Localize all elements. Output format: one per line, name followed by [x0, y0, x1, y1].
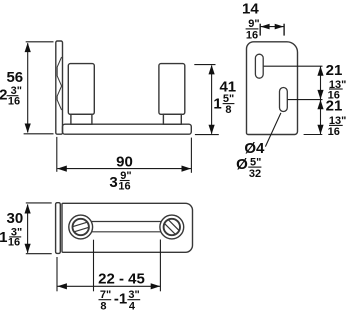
svg-text:32: 32: [249, 168, 261, 180]
svg-text:8: 8: [100, 300, 106, 310]
arrow up 41: [209, 65, 215, 75]
ext line bottom: [195, 134, 219, 136]
svg-text:3: 3: [109, 174, 117, 191]
dimension 22-45 / 7/8"-1 3/4": [57, 240, 160, 292]
ext line bottom: [24, 133, 54, 135]
upper slot: [255, 54, 263, 78]
right roller neck: [163, 114, 181, 124]
svg-text:Ø: Ø: [236, 156, 248, 173]
right screw head: [164, 219, 180, 235]
ext bar right: [283, 24, 285, 36]
svg-text:90: 90: [116, 154, 133, 171]
arrow right 90: [182, 166, 192, 172]
adjustment slot upper edge: [81, 221, 172, 223]
left screw outer rim: [69, 215, 93, 239]
ext line plate bottom: [304, 134, 323, 136]
dimension 21/21 13/16" chain: [264, 66, 323, 134]
dim line 14: [260, 26, 284, 28]
ext line upper slot: [264, 65, 323, 67]
arrow left 90: [57, 166, 67, 172]
arrow right 14: [275, 24, 284, 30]
ext line left: [56, 137, 58, 172]
svg-text:16: 16: [118, 180, 130, 192]
side view plate: [247, 42, 298, 135]
dim line 41: [211, 66, 213, 134]
svg-text:16: 16: [328, 126, 340, 138]
ext line top: [26, 41, 54, 43]
lower slot: [280, 88, 288, 112]
right roller body: [159, 64, 185, 115]
ext bar left: [259, 24, 261, 36]
ext line right: [190, 138, 192, 173]
top view base plate: [62, 203, 193, 252]
dimension 41 / 1 5/8": [194, 65, 219, 135]
arrow left 14: [261, 24, 270, 30]
arrow up 21b: [317, 100, 323, 110]
ext line top: [26, 202, 52, 204]
ext line right screw: [159, 240, 161, 292]
left screw driver slot: [73, 222, 89, 232]
svg-text:30: 30: [7, 210, 24, 227]
right screw driver slot: [164, 220, 179, 235]
svg-text:21: 21: [326, 62, 343, 79]
ext line back plate: [56, 257, 58, 291]
ext line bottom: [26, 253, 52, 255]
svg-text:1: 1: [213, 96, 221, 113]
dimension 90 / 3 9/16": [57, 137, 192, 173]
left roller neck: [71, 114, 92, 124]
dim line 22-45: [57, 285, 160, 287]
svg-text:8: 8: [225, 104, 231, 116]
svg-text:21: 21: [326, 98, 343, 115]
arrow down 21b: [317, 125, 323, 135]
arrow down 56: [25, 124, 31, 134]
svg-text:1: 1: [0, 229, 7, 246]
arrow up 56: [25, 43, 31, 53]
dim line 30: [27, 205, 29, 253]
front view wall plate: [56, 41, 63, 134]
arrow up 21a: [317, 66, 323, 76]
svg-text:-1: -1: [114, 291, 127, 308]
adjustment slot lower edge: [81, 231, 172, 233]
left roller body: [68, 64, 94, 115]
dimension 30 / 1 3/16": [26, 203, 52, 254]
dim line 56: [27, 43, 29, 132]
svg-text:2: 2: [0, 86, 7, 103]
ext line top: [194, 64, 215, 66]
leader line for hole dia: [265, 113, 281, 147]
arrow down 21a: [317, 90, 323, 100]
arrow down 41: [209, 125, 215, 135]
top view back plate strip: [56, 203, 61, 254]
arrow up 30: [25, 204, 31, 214]
svg-text:Ø4: Ø4: [244, 140, 265, 157]
left screw head: [73, 219, 89, 235]
dim line 90: [57, 168, 191, 170]
svg-text:56: 56: [6, 69, 23, 86]
svg-text:16: 16: [8, 96, 20, 108]
ext line left screw: [93, 240, 95, 292]
ext line lower slot: [288, 99, 323, 101]
svg-text:22 - 45: 22 - 45: [98, 271, 145, 288]
svg-text:16: 16: [246, 29, 258, 41]
dim line 21 chain: [320, 66, 322, 134]
arrow right 22-45: [151, 283, 161, 289]
dimension 56 / 2 3/16": [24, 42, 54, 134]
arrow down 30: [25, 244, 31, 254]
front view base bar: [63, 124, 192, 134]
svg-text:16: 16: [8, 237, 20, 249]
wall plate profile zigzag: [57, 57, 61, 110]
right screw outer rim: [160, 215, 184, 239]
svg-text:4: 4: [129, 300, 136, 310]
svg-text:14: 14: [242, 1, 259, 18]
arrow left 22-45: [57, 283, 67, 289]
dimension 14 / 9/16": [260, 24, 284, 36]
